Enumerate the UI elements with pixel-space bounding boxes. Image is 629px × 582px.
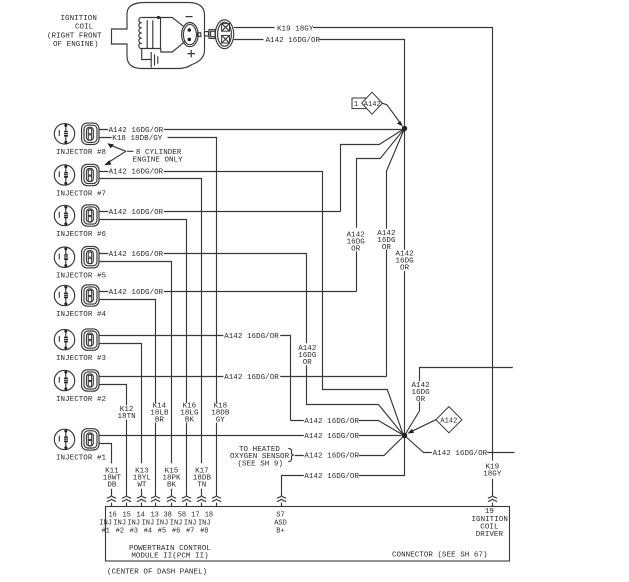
svg-text:#3: #3 — [130, 528, 138, 536]
svg-text:A142 16DG/OR: A142 16DG/OR — [109, 289, 164, 297]
svg-text:DRIVER: DRIVER — [476, 531, 504, 539]
svg-text:18: 18 — [205, 512, 213, 520]
svg-text:CONNECTOR (SEE SH 67): CONNECTOR (SEE SH 67) — [392, 552, 488, 560]
svg-text:A142: A142 — [440, 417, 457, 425]
arrow from bottom diamond into node — [410, 420, 436, 433]
wire bottom node down-right off-page — [405, 436, 515, 453]
svg-text:A142 16DG/OR: A142 16DG/OR — [109, 169, 164, 177]
svg-text:IGNITION: IGNITION — [61, 15, 97, 23]
8 cylinder engine only callout — [107, 145, 134, 164]
svg-text:INJECTOR #6: INJECTOR #6 — [56, 231, 107, 239]
svg-text:GY: GY — [216, 416, 226, 424]
top splice fan: node to injector #4 riser (label break) — [357, 129, 405, 292]
svg-text:INJECTOR #1: INJECTOR #1 — [56, 455, 107, 463]
wire K19 18GY: coil to right edge then down — [234, 28, 493, 461]
svg-text:#5: #5 — [158, 528, 166, 536]
injector #2 A142 wire to top splice riser — [99, 376, 387, 378]
svg-text:OF ENGINE): OF ENGINE) — [53, 41, 99, 49]
K19 wire resume + chevrons — [492, 479, 494, 507]
svg-text:13: 13 — [150, 512, 158, 520]
svg-text:TN: TN — [197, 482, 206, 490]
injector #7 A142 wire: right, down, to bottom splice — [99, 172, 403, 434]
K15 chevrons — [167, 496, 176, 502]
svg-text:COIL: COIL — [75, 24, 94, 32]
svg-text:A142: A142 — [364, 101, 381, 109]
svg-text:14: 14 — [136, 512, 144, 520]
oxygen sensor brace — [288, 448, 294, 461]
svg-text:#4: #4 — [144, 528, 152, 536]
coil core lines — [147, 20, 153, 48]
svg-text:OR: OR — [400, 265, 410, 273]
K18 chevrons — [212, 496, 221, 502]
svg-text:INJ: INJ — [127, 520, 140, 528]
wire K11 18WT/DB injector #1 to PCM pin 16 — [99, 444, 112, 507]
svg-text:OR: OR — [351, 246, 361, 254]
svg-text:OR: OR — [382, 244, 392, 252]
svg-text:INJ: INJ — [156, 520, 169, 528]
injector #3 A142 wire: right, down, to bottom splice — [99, 336, 403, 435]
svg-text:1: 1 — [354, 101, 359, 109]
svg-text:BK: BK — [185, 416, 195, 424]
ignition coil body outline with left tab — [112, 3, 205, 69]
injector #1 A142 wire straight into bottom splice — [99, 435, 401, 437]
top splice fan: node to injector #6 riser — [341, 129, 405, 212]
top splice fan: node to injector #2 riser (label break) — [387, 129, 405, 377]
plus sign — [188, 50, 196, 57]
K11 chevrons — [107, 496, 116, 502]
svg-text:INJ: INJ — [99, 520, 112, 528]
junction dot on coil top — [157, 16, 160, 19]
svg-text:INJECTOR #8: INJECTOR #8 — [56, 149, 106, 157]
connector pass-through chevron symbol — [0, 0, 1, 1]
svg-text:ENGINE ONLY: ENGINE ONLY — [133, 157, 184, 165]
arrow from diamond to top node — [382, 103, 401, 124]
svg-text:K18 18DB/GY: K18 18DB/GY — [112, 135, 163, 143]
svg-text:BK: BK — [167, 482, 177, 490]
svg-text:WT: WT — [137, 482, 147, 490]
connector pin cavities with X — [222, 24, 230, 32]
coil body right tab — [205, 32, 209, 36]
svg-text:A142 16DG/OR: A142 16DG/OR — [224, 333, 279, 341]
svg-text:INJ: INJ — [113, 520, 126, 528]
wire: coil top to tower upper pin — [159, 18, 184, 27]
svg-text:A142 16DG/OR: A142 16DG/OR — [433, 450, 488, 458]
coil tower oval (double ring) — [182, 22, 199, 46]
svg-text:A142 16DG/OR: A142 16DG/OR — [304, 473, 359, 481]
svg-text:#2: #2 — [116, 528, 124, 536]
svg-text:INJECTOR #5: INJECTOR #5 — [56, 273, 107, 281]
K16 chevrons — [182, 496, 191, 502]
svg-text:ASD: ASD — [274, 520, 287, 528]
svg-text:INJ: INJ — [142, 520, 155, 528]
splice reference: box 1 + diamond A142 — [352, 98, 367, 109]
ground — [142, 49, 158, 68]
svg-text:#7: #7 — [186, 528, 194, 536]
K12 chevrons — [122, 496, 131, 502]
svg-text:INJECTOR #3: INJECTOR #3 — [56, 355, 107, 363]
svg-text:A142 16DG/OR: A142 16DG/OR — [304, 418, 359, 426]
svg-text:#1: #1 — [101, 528, 109, 536]
wire K12 18TN injector #2 to PCM pin 15 — [99, 385, 127, 507]
svg-text:A142 16DG/OR: A142 16DG/OR — [109, 251, 164, 259]
svg-text:S7: S7 — [276, 512, 284, 520]
wire K17 18DB/TN injector #7 to PCM pin 17 — [99, 179, 202, 507]
svg-text:A142 16DG/OR: A142 16DG/OR — [266, 37, 321, 45]
svg-text:A142 16DG/OR: A142 16DG/OR — [109, 127, 164, 135]
svg-text:#6: #6 — [172, 528, 180, 536]
svg-text:38: 38 — [163, 512, 171, 520]
K14 chevrons — [151, 496, 160, 502]
injector #7 — [54, 164, 99, 185]
svg-text:58: 58 — [178, 512, 186, 520]
injector #5 A142 wire: right, down, to bottom splice — [99, 254, 403, 435]
svg-text:#8: #8 — [200, 528, 208, 536]
tower pins — [188, 28, 192, 32]
svg-text:DB: DB — [107, 482, 117, 490]
wire K13 18YL/WT injector #3 to PCM pin 14 — [99, 344, 142, 507]
injector #6 — [54, 205, 99, 226]
svg-text:A142 16DG/OR: A142 16DG/OR — [304, 453, 359, 461]
svg-text:17: 17 — [191, 512, 199, 520]
svg-text:(RIGHT FRONT: (RIGHT FRONT — [47, 32, 102, 40]
minus sign — [186, 16, 193, 18]
bottom splice node — [402, 433, 407, 438]
svg-text:A142 16DG/OR: A142 16DG/OR — [224, 374, 279, 382]
injector #8 A142 wire — [99, 129, 402, 131]
svg-text:INJECTOR #7: INJECTOR #7 — [56, 190, 106, 198]
wire A142 16DG/OR: coil to splice spine — [234, 40, 405, 126]
svg-text:(SEE SH 9): (SEE SH 9) — [238, 461, 284, 469]
injector #6 A142 wire to top splice riser — [99, 211, 341, 213]
wire K18 18DB/GY injector #8 to PCM pin 18 — [99, 138, 217, 507]
harness connector double oval — [215, 20, 233, 49]
injector #4 — [54, 285, 99, 306]
tower side tab — [198, 33, 201, 37]
svg-text:A142 16DG/OR: A142 16DG/OR — [304, 433, 359, 441]
svg-text:16: 16 — [108, 512, 116, 520]
injector #8 — [54, 123, 99, 144]
diamond A142 at bottom — [436, 407, 462, 433]
injector #1 — [54, 429, 99, 450]
splice spine: top node to bottom node (label break) — [404, 129, 406, 436]
svg-text:INJ: INJ — [170, 520, 183, 528]
wire to heated oxygen sensor — [295, 437, 403, 456]
connector left collar — [209, 30, 215, 39]
top splice node — [402, 126, 407, 131]
injector #2 — [54, 370, 99, 391]
wire: tower lower pin to coil bottom — [161, 42, 185, 52]
wire K16 18LG/BK injector #6 to PCM pin 58 — [99, 220, 187, 507]
svg-text:(CENTER OF DASH PANEL): (CENTER OF DASH PANEL) — [107, 569, 207, 577]
wire bottom node up-right then right off-page — [405, 368, 513, 436]
coil winding box (scalloped left edge) — [142, 18, 161, 49]
wire K15 18PK/BK injector #5 to PCM pin 38 — [99, 262, 172, 507]
svg-text:INJ: INJ — [198, 520, 211, 528]
svg-text:INJECTOR #2: INJECTOR #2 — [56, 396, 106, 404]
injector #4 A142 wire to top splice riser — [99, 291, 357, 293]
wire K14 18LB/BR injector #4 to PCM pin 13 — [99, 300, 156, 507]
svg-text:A142 16DG/OR: A142 16DG/OR — [109, 209, 164, 217]
wire bottom node to S7 ASD pin — [282, 436, 405, 507]
PCM connector box — [106, 507, 510, 562]
injector #5 — [54, 247, 99, 268]
svg-text:15: 15 — [122, 512, 130, 520]
svg-text:INJECTOR #4: INJECTOR #4 — [56, 311, 107, 319]
injector #3 — [54, 329, 99, 350]
svg-text:B+: B+ — [276, 528, 284, 536]
svg-text:18TN: 18TN — [117, 413, 135, 421]
K17 chevrons — [197, 496, 206, 502]
svg-text:OR: OR — [303, 359, 313, 367]
svg-text:K19 18GY: K19 18GY — [277, 25, 314, 33]
svg-text:INJ: INJ — [184, 520, 197, 528]
K13 chevrons — [137, 496, 146, 502]
svg-text:BR: BR — [155, 416, 165, 424]
svg-text:MODULE II(PCM II): MODULE II(PCM II) — [131, 553, 208, 561]
svg-text:18GY: 18GY — [483, 471, 502, 479]
svg-text:OR: OR — [416, 396, 426, 404]
